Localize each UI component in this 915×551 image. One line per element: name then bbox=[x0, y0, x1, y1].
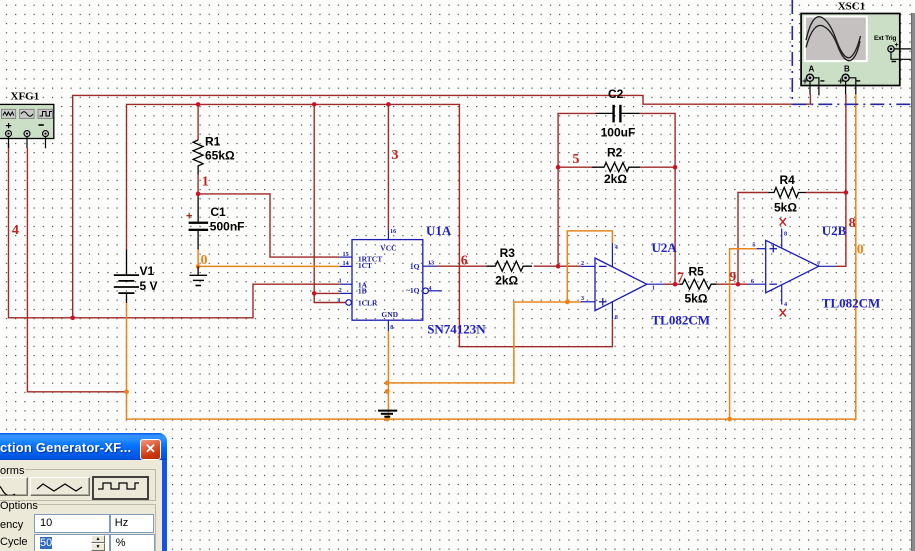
duty cycle row bbox=[0, 536, 28, 548]
node label 4 bbox=[12, 223, 19, 238]
U1A pin1 stub bbox=[339, 278, 352, 285]
label TL082CM U2B bbox=[822, 295, 881, 310]
junction orange gnd trunk mid bbox=[385, 389, 390, 394]
svg-text:B: B bbox=[844, 65, 850, 74]
svg-text:R1: R1 bbox=[205, 135, 221, 149]
junction node8 at R4 right bbox=[844, 190, 849, 195]
label SN74123N bbox=[427, 321, 486, 336]
svg-text:4: 4 bbox=[615, 244, 618, 251]
wire node4 from XFG1 plus terminal bbox=[9, 143, 340, 318]
svg-text:8: 8 bbox=[849, 216, 856, 231]
frequency row bbox=[0, 519, 23, 531]
svg-text:A: A bbox=[809, 65, 815, 74]
junction rail B at pin2 wire bbox=[312, 102, 317, 107]
battery V1 bbox=[114, 250, 158, 304]
svg-text:+: + bbox=[186, 211, 192, 223]
ground under U1A bbox=[378, 411, 397, 417]
svg-text:R5: R5 bbox=[689, 265, 705, 279]
junction R2 right bbox=[673, 165, 678, 170]
junction node5 at U2A pin2 bbox=[556, 264, 561, 269]
resistor R2 bbox=[592, 145, 640, 186]
groupbox waveforms bbox=[0, 465, 24, 477]
svg-text:3: 3 bbox=[392, 148, 399, 163]
U2B pin6 stub bbox=[748, 278, 766, 285]
label U2A bbox=[652, 240, 678, 255]
U1A pin2 stub bbox=[339, 287, 352, 294]
U1A pin15 stub bbox=[340, 251, 352, 258]
svg-text:U2B: U2B bbox=[822, 223, 847, 238]
junction orange U2A pin3 bbox=[565, 300, 570, 305]
svg-text:Ext Trig: Ext Trig bbox=[874, 35, 896, 42]
U2B pin7 output stub bbox=[817, 260, 836, 267]
svg-text:9: 9 bbox=[729, 270, 736, 285]
svg-text:2kΩ: 2kΩ bbox=[495, 274, 518, 288]
svg-text:GND: GND bbox=[381, 310, 398, 319]
resistor R1 bbox=[193, 135, 235, 175]
svg-text:XSC1: XSC1 bbox=[838, 1, 866, 13]
label U1A bbox=[426, 223, 452, 238]
wire node1 R1 bottom to C1 and U1A pin15 bbox=[198, 175, 340, 258]
node label 8 bbox=[849, 216, 856, 231]
svg-text:2: 2 bbox=[339, 287, 342, 294]
node label 7 bbox=[677, 271, 684, 286]
svg-text:+: + bbox=[895, 42, 899, 49]
svg-text:65kΩ: 65kΩ bbox=[205, 149, 235, 163]
svg-text:1CT: 1CT bbox=[358, 261, 372, 270]
wire node0 U1A pin8 down to rail bbox=[387, 331, 389, 419]
svg-text:R2: R2 bbox=[607, 145, 623, 159]
junction orange gnd trunk upper bbox=[385, 381, 390, 386]
U2B pin5 stub bbox=[752, 241, 765, 248]
wire rail B VCC node3 bbox=[127, 104, 613, 346]
U1A pin8 stub bbox=[388, 320, 393, 331]
U2A pin8 stub bbox=[612, 302, 617, 321]
svg-text:C2: C2 bbox=[608, 87, 624, 101]
resistor R3 bbox=[486, 246, 532, 288]
wire to U1A pin2 pin3 bbox=[314, 104, 345, 302]
svg-text:V1: V1 bbox=[140, 264, 155, 278]
right grey strip bbox=[911, 13, 915, 551]
capacitor C2 bbox=[595, 87, 639, 140]
U1A pin16 stub bbox=[388, 228, 396, 240]
node label 9 bbox=[729, 270, 736, 285]
svg-text:5: 5 bbox=[752, 241, 755, 248]
svg-text:1: 1 bbox=[652, 284, 655, 291]
svg-text:2kΩ: 2kΩ bbox=[604, 172, 627, 186]
junction node9 at pin6 bbox=[736, 282, 741, 287]
junction orange U2B pin5 branch bbox=[727, 417, 732, 422]
svg-text:0: 0 bbox=[201, 253, 208, 268]
X mark U2B pin4 unconnected bbox=[780, 309, 786, 317]
junction orange at V1 wire bbox=[124, 389, 129, 394]
U2A pin4 stub bbox=[612, 243, 617, 267]
svg-text:14: 14 bbox=[343, 260, 349, 267]
node label 3 bbox=[392, 148, 399, 163]
junction node7 bbox=[673, 282, 678, 287]
svg-text:6: 6 bbox=[461, 254, 468, 269]
oscilloscope XSC1 bbox=[801, 14, 911, 96]
wire node0 branch to U2A pin3 and pin4 bbox=[387, 231, 612, 383]
waveform buttons bbox=[0, 477, 28, 496]
node label 0 at U2B bbox=[857, 242, 864, 257]
label U2B bbox=[822, 223, 847, 238]
svg-text:4: 4 bbox=[12, 223, 19, 238]
svg-text:16: 16 bbox=[390, 228, 396, 235]
svg-text:7: 7 bbox=[817, 260, 820, 267]
wire node5 vertical to C2 R2 bbox=[558, 113, 595, 266]
svg-text:U1A: U1A bbox=[426, 223, 452, 238]
wire node4 rail A top bbox=[73, 94, 811, 318]
junction rail B at R1 bbox=[196, 102, 201, 107]
junction node4 bbox=[70, 316, 75, 321]
U2A pin2 stub bbox=[581, 260, 595, 267]
wire R1 top to rail bbox=[197, 104, 199, 140]
svg-text:XFG1: XFG1 bbox=[11, 90, 40, 102]
label TL082CM U2A bbox=[652, 313, 711, 328]
svg-text:4: 4 bbox=[784, 301, 787, 308]
svg-text:100uF: 100uF bbox=[601, 126, 636, 140]
wire to U1A pin16 bbox=[387, 104, 389, 230]
svg-text:R3: R3 bbox=[500, 246, 516, 260]
svg-text:2: 2 bbox=[581, 260, 584, 267]
svg-text:0: 0 bbox=[857, 242, 864, 257]
svg-text:13: 13 bbox=[428, 260, 434, 267]
svg-text:8: 8 bbox=[390, 324, 393, 331]
wire node9 R5 to U2B pin6 and R4 bbox=[717, 94, 846, 284]
svg-text:5kΩ: 5kΩ bbox=[774, 201, 797, 215]
svg-text:TL082CM: TL082CM bbox=[652, 313, 711, 328]
label XFG1 bbox=[11, 90, 40, 102]
svg-text:6: 6 bbox=[751, 278, 754, 285]
svg-text:7: 7 bbox=[677, 271, 684, 286]
resistor R5 bbox=[680, 265, 717, 306]
U1A pin3 stub with bubble bbox=[337, 297, 351, 306]
junction node0 at C1 ground bbox=[196, 264, 201, 269]
svg-text:1B: 1B bbox=[358, 286, 367, 295]
node label 5 bbox=[572, 152, 579, 167]
node label 6 bbox=[461, 254, 468, 269]
svg-text:3: 3 bbox=[337, 297, 340, 304]
X mark U2B pin8 unconnected bbox=[780, 218, 786, 226]
svg-text:SN74123N: SN74123N bbox=[427, 321, 486, 336]
svg-text:TL082CM: TL082CM bbox=[822, 295, 881, 310]
svg-text:15: 15 bbox=[343, 251, 349, 258]
junction node1 bbox=[196, 192, 201, 197]
wire node6 U1A pin13 to R3 to U2A pin2 bbox=[437, 265, 581, 267]
svg-text:1: 1 bbox=[202, 174, 209, 189]
wire node0 to U2B pin5 bbox=[730, 249, 757, 419]
U2B pin8 stub bbox=[782, 229, 787, 249]
selection dash box around XSC1 bbox=[792, 0, 915, 104]
wire node7 output to R5 bbox=[664, 283, 680, 285]
U2A pin3 stub bbox=[581, 295, 595, 302]
wire node0 orange ground rail bbox=[127, 94, 856, 419]
groupbox options bbox=[0, 500, 38, 512]
svg-text:U2A: U2A bbox=[652, 240, 678, 255]
U1A pin13 stub bbox=[423, 260, 437, 267]
wire node0 C1 bottom to U1A pin14 bbox=[198, 250, 340, 267]
svg-text:3: 3 bbox=[581, 295, 584, 302]
label XSC1 bbox=[838, 1, 866, 13]
wire node7 C2 R2 right to U2A output bbox=[640, 113, 675, 284]
junction R2 left bbox=[556, 165, 561, 170]
junction rail B at pin16 wire bbox=[386, 102, 391, 107]
op-amp U2A bbox=[595, 258, 647, 311]
svg-text:500nF: 500nF bbox=[210, 220, 245, 234]
svg-text:8: 8 bbox=[784, 230, 787, 237]
U2B pin4 stub bbox=[782, 285, 787, 308]
node label 0 at C1 ground bbox=[201, 253, 208, 268]
svg-text:5 V: 5 V bbox=[140, 279, 158, 293]
junction orange gnd at rail bbox=[385, 417, 390, 422]
IC U1A SN74123N box bbox=[352, 240, 423, 321]
svg-text:1CLR: 1CLR bbox=[358, 298, 378, 307]
U1A pin4 stub with bubble bbox=[423, 285, 442, 294]
svg-text:~1Q: ~1Q bbox=[406, 286, 420, 295]
svg-text:1: 1 bbox=[339, 278, 342, 285]
capacitor C1 bbox=[186, 197, 244, 250]
U2A pin1 output stub bbox=[647, 284, 664, 291]
svg-text:C1: C1 bbox=[210, 205, 226, 219]
dialog window Function Generator bbox=[0, 433, 167, 551]
wire node0 from XFG1 common terminal bbox=[27, 148, 126, 392]
svg-text:1Q: 1Q bbox=[410, 262, 420, 271]
resistor R4 bbox=[769, 173, 806, 215]
svg-text:R4: R4 bbox=[780, 173, 796, 187]
junction at U1A pin2 branch bbox=[312, 291, 317, 296]
svg-text:VCC: VCC bbox=[380, 243, 396, 252]
svg-text:5kΩ: 5kΩ bbox=[685, 292, 708, 306]
svg-text:5: 5 bbox=[572, 152, 579, 167]
ground under C1 bbox=[190, 266, 208, 285]
function generator XFG1 bbox=[0, 104, 54, 148]
U1A pin14 stub bbox=[340, 260, 352, 267]
svg-text:4: 4 bbox=[429, 285, 432, 292]
node label 1 bbox=[202, 174, 209, 189]
op-amp U2B bbox=[766, 240, 819, 292]
svg-text:8: 8 bbox=[615, 314, 618, 321]
